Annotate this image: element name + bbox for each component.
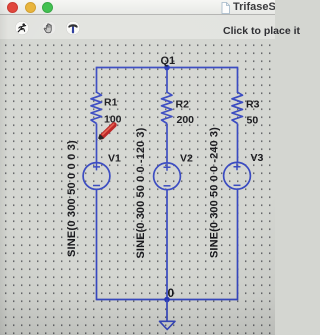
svg-text:Q1: Q1 [161, 55, 176, 67]
resistor R1 [91, 92, 102, 123]
voltage source V2 [154, 163, 181, 190]
wire: branch1 mid stub [96, 124, 98, 163]
wire: branch1 bottom stub [96, 189, 98, 300]
svg-text:R1: R1 [104, 97, 118, 109]
window title bar [0, 0, 275, 15]
wire: ground stub [166, 300, 168, 322]
svg-text:R3: R3 [246, 99, 260, 111]
status hint [223, 25, 300, 37]
resistor R3 [232, 92, 243, 123]
resistor R2 [162, 92, 173, 123]
wire: branch3 mid stub [237, 124, 239, 163]
window title [233, 1, 320, 13]
wire: top horizontal bus Q1 [97, 67, 238, 69]
svg-text:SINE(0 300 50 0 0 -240 3): SINE(0 300 50 0 0 -240 3) [209, 127, 221, 258]
node 0 junction dot [164, 297, 170, 303]
toolbar [0, 15, 275, 39]
tool button: hammer [66, 21, 80, 35]
svg-text:V3: V3 [251, 152, 264, 164]
traffic light zoom [42, 2, 53, 13]
tool button: run [15, 21, 29, 35]
node Q1 junction dot [164, 65, 170, 71]
traffic light minimize [25, 2, 36, 13]
wire: branch3 bottom stub [237, 189, 239, 300]
wire: branch2 bottom stub [166, 190, 168, 300]
wire: branch2 top stub [166, 68, 168, 94]
document icon [221, 2, 230, 14]
tool button: drag hand [42, 21, 56, 35]
voltage source V3 [224, 162, 251, 189]
svg-text:SINE(0 300 50 0 0 -120 3): SINE(0 300 50 0 0 -120 3) [135, 127, 147, 258]
wire: branch3 top stub [237, 67, 239, 93]
cursor: red pencil [97, 124, 114, 141]
svg-text:V1: V1 [108, 153, 121, 165]
wire: branch1 top stub [96, 67, 98, 93]
svg-text:R2: R2 [176, 99, 190, 111]
svg-text:0: 0 [168, 286, 175, 300]
ground [160, 321, 176, 329]
voltage source V1 [83, 163, 110, 190]
svg-text:V2: V2 [180, 153, 193, 165]
svg-text:50: 50 [247, 115, 259, 127]
wire: branch2 mid stub [166, 124, 168, 163]
svg-text:SINE(0 300 50 0 0 0 3): SINE(0 300 50 0 0 0 3) [66, 140, 78, 257]
svg-text:200: 200 [177, 114, 195, 126]
wire: bottom horizontal bus [97, 299, 238, 301]
grid dot background [0, 39, 275, 335]
traffic light close [7, 2, 18, 13]
